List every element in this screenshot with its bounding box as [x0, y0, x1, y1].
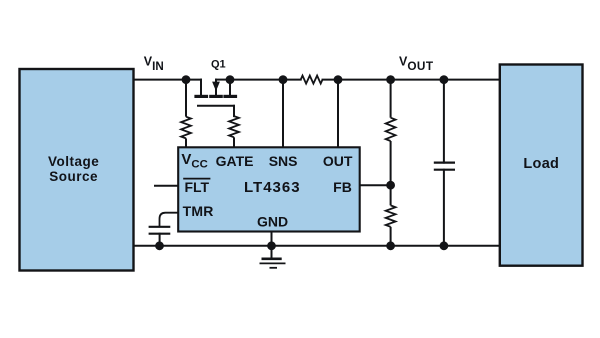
svg-text:Q1: Q1: [211, 58, 226, 70]
node FB: [386, 181, 395, 190]
svg-text:LT4363: LT4363: [244, 179, 301, 196]
resistor R3 (divider top): [386, 80, 396, 206]
voltage source box: [20, 69, 134, 271]
capacitor C1 (TMR) with wire: [150, 213, 179, 246]
svg-text:Source: Source: [49, 169, 98, 184]
svg-text:FB: FB: [333, 179, 352, 195]
node SNS: [279, 75, 288, 84]
svg-text:OUT: OUT: [323, 153, 353, 169]
resistor RS (sense, horizontal): [301, 76, 323, 84]
node VIN: [182, 75, 191, 84]
node cap top: [440, 75, 449, 84]
wire OUT: [337, 80, 339, 147]
wire top rail right segment: [323, 79, 501, 81]
svg-text:SNS: SNS: [269, 153, 298, 169]
node TMR cap bottom: [155, 241, 164, 250]
IC U1 LT4363: [178, 147, 360, 231]
svg-text:GND: GND: [257, 214, 288, 230]
wire FLT stub: [155, 185, 178, 187]
node cap bottom: [440, 241, 449, 250]
svg-text:VOUT: VOUT: [399, 54, 434, 73]
svg-text:VIN: VIN: [144, 54, 164, 73]
wire top rail middle segment: [230, 79, 301, 81]
wire bottom rail: [133, 245, 500, 247]
capacitor C2 (output): [435, 80, 454, 246]
ground: [260, 259, 286, 268]
svg-text:FLT: FLT: [184, 179, 209, 195]
wire FB: [360, 184, 391, 186]
svg-text:GATE: GATE: [216, 153, 254, 169]
resistor R2 (gate): [229, 116, 239, 147]
node Q1 source: [226, 75, 235, 84]
wire top rail left segment: [133, 79, 201, 81]
node OUT: [334, 75, 343, 84]
svg-text:Voltage: Voltage: [48, 154, 99, 169]
svg-text:TMR: TMR: [183, 203, 214, 219]
node divider top: [386, 75, 395, 84]
svg-text:Load: Load: [523, 156, 559, 172]
node GND rail: [267, 241, 276, 250]
load box: [500, 65, 583, 266]
resistor R4 (divider bottom): [386, 205, 396, 245]
wire GND pin: [271, 232, 273, 258]
wire SNS: [282, 80, 284, 147]
node divider bottom: [386, 241, 395, 250]
transistor Q1: [196, 80, 236, 117]
resistor R1 (VIN to VCC): [181, 80, 191, 148]
